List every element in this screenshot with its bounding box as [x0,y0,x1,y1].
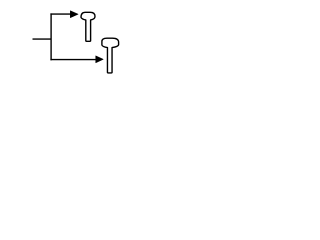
telephone receiver E2 (bottom) [102,38,119,73]
arrow A1 (top, pointing at receiver E1) [70,11,78,18]
wire: top branch [50,13,70,15]
telephone receiver E1 (top) [81,12,95,41]
wire: left input stub [33,38,52,40]
arrow A2 (bottom, pointing at receiver E2) [96,56,104,63]
wire: bottom branch [50,59,96,61]
wire: vertical bus [50,13,52,60]
